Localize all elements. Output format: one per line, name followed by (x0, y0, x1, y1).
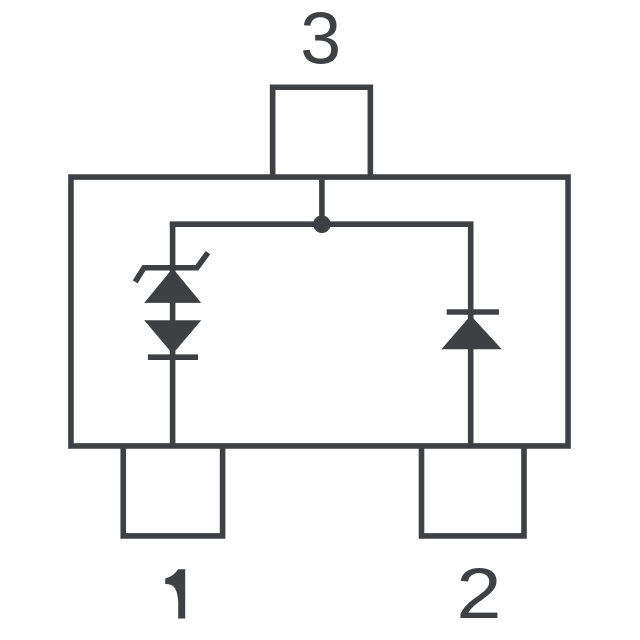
zener diode Z1 triangle (144, 268, 201, 303)
wire node horizontal (170, 221, 474, 227)
pin 2 lead tab (422, 445, 525, 536)
pin 3 lead tab (273, 87, 371, 177)
diode cathode bar D2 (447, 309, 499, 315)
pin 1 number label (165, 569, 185, 618)
svg-text:2: 2 (456, 555, 501, 634)
node junction dot (313, 215, 331, 233)
diode D2 triangle (441, 316, 501, 350)
svg-text:3: 3 (300, 0, 341, 79)
wire left branch vertical (170, 222, 176, 447)
package body outline (71, 177, 568, 446)
diode D1 triangle (144, 320, 201, 354)
wire pin 3 to node (319, 178, 325, 224)
zener cathode bar Z1 (135, 253, 208, 282)
wire right branch vertical (468, 222, 474, 447)
pin 1 lead tab (123, 445, 222, 536)
diode cathode bar D1 (148, 354, 198, 360)
